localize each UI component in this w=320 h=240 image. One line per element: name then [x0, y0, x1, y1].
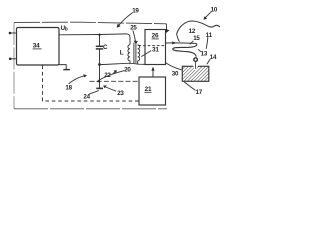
svg-text:24: 24: [83, 94, 90, 101]
svg-text:C: C: [103, 44, 108, 51]
svg-text:20: 20: [124, 66, 131, 73]
svg-text:25: 25: [130, 24, 137, 31]
svg-text:12: 12: [189, 28, 196, 35]
svg-text:23: 23: [117, 90, 124, 97]
svg-text:31: 31: [152, 46, 159, 53]
svg-text:13: 13: [201, 50, 208, 57]
svg-text:30: 30: [172, 71, 179, 78]
svg-text:15: 15: [193, 35, 200, 42]
svg-text:L: L: [120, 50, 124, 57]
svg-text:11: 11: [206, 32, 213, 39]
svg-text:19: 19: [132, 8, 139, 15]
svg-text:10: 10: [211, 7, 218, 14]
svg-text:18: 18: [65, 85, 72, 92]
svg-text:22: 22: [104, 72, 111, 79]
svg-text:14: 14: [210, 54, 217, 61]
svg-text:17: 17: [196, 89, 203, 96]
svg-text:b: b: [65, 26, 68, 32]
